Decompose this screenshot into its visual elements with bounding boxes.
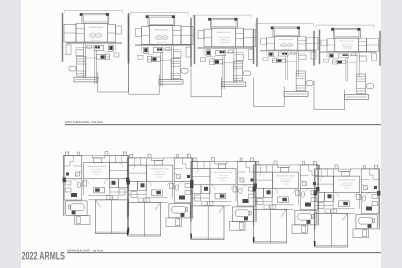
- svg-text:DOWN BUILDING - 1st Floor: DOWN BUILDING - 1st Floor: [67, 249, 103, 253]
- svg-text:2022 ARMLS: 2022 ARMLS: [22, 251, 66, 263]
- svg-text:SOUTH BUILDING - 2nd Floor: SOUTH BUILDING - 2nd Floor: [65, 120, 103, 124]
